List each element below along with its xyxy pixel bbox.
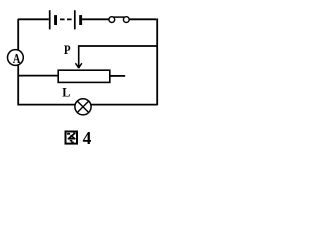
- svg-text:A: A: [13, 51, 21, 67]
- svg-text:L: L: [62, 86, 70, 100]
- svg-text:4: 4: [83, 128, 92, 148]
- svg-text:P: P: [64, 42, 71, 57]
